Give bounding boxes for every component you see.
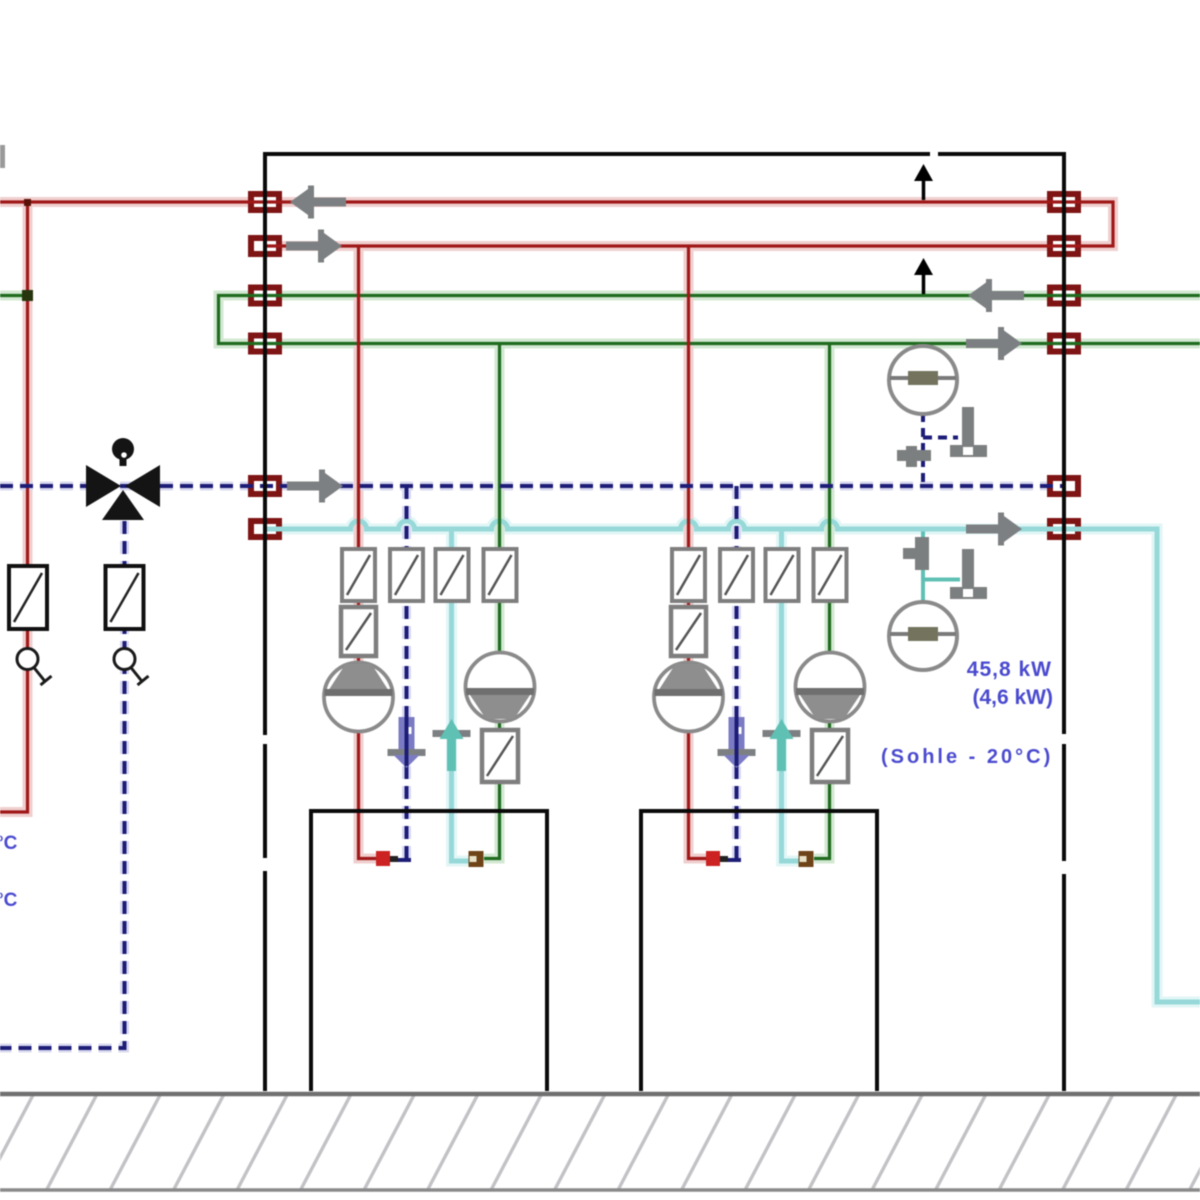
- svg-text:(Sohle - 20°C): (Sohle - 20°C): [881, 746, 1053, 768]
- svg-text:(4,6 kW): (4,6 kW): [972, 686, 1053, 709]
- svg-text:°C: °C: [0, 833, 18, 854]
- svg-text:°C: °C: [0, 890, 18, 911]
- svg-text:45,8 kW: 45,8 kW: [967, 658, 1052, 681]
